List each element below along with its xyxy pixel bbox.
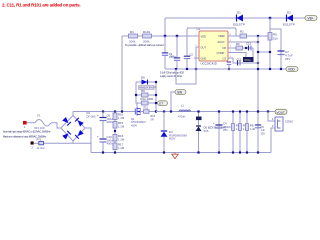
svg-text:VB+: VB+	[308, 17, 314, 21]
wire FB line	[233, 47, 253, 49]
diode D2	[283, 11, 295, 27]
node junction x258/52	[257, 51, 259, 53]
svg-text:0.1uF C9 to hold up VDD: 0.1uF C9 to hold up VDD	[160, 72, 184, 75]
wire fuse to bridge	[51, 123, 61, 128]
node junction rail/C5	[257, 110, 259, 112]
node junction startup tap	[121, 110, 123, 112]
wire HV rail left	[73, 111, 132, 113]
resistor R5	[268, 33, 278, 41]
svg-text:+: +	[97, 135, 99, 139]
pin stub GND 5	[194, 57, 199, 59]
node junction rail/CON	[267, 110, 269, 112]
svg-text:VREF: VREF	[218, 34, 225, 38]
svg-text:R101: R101	[143, 30, 151, 34]
node junction R9 right	[155, 94, 157, 96]
svg-text:GND: GND	[201, 57, 207, 61]
svg-text:VOUT: VOUT	[277, 110, 286, 114]
resistor R6	[232, 112, 242, 153]
svg-text:R11: R11	[144, 107, 149, 110]
node junction bus/x258	[257, 68, 259, 70]
capacitor C11	[237, 59, 242, 66]
wire AC line 1	[27, 122, 35, 124]
svg-text:2: 2	[272, 124, 274, 128]
node junction rail/D5	[197, 110, 199, 112]
capacitor C13 above bus	[227, 62, 231, 69]
svg-text:To provide +100uA start-up cur: To provide +100uA start-up current	[125, 43, 164, 47]
svg-text:0R: 0R	[151, 118, 154, 121]
wire top-rail left drop	[164, 18, 166, 36]
bridge diode top-right	[75, 118, 84, 127]
pin stub AOUT 1	[228, 41, 233, 43]
svg-text:470p: 470p	[244, 58, 251, 62]
svg-text:SW: SW	[177, 91, 182, 95]
resistor R13 label	[151, 115, 156, 121]
wire snubber right rail	[155, 82, 157, 112]
wire branch to C7	[270, 29, 281, 69]
fuse F1	[35, 113, 52, 130]
node junction bus/x270	[269, 68, 271, 70]
node junction gnd/R7	[239, 151, 241, 153]
svg-text:Maximum allowance input 485VAC: Maximum allowance input 485VAC, 50/60Hz	[3, 136, 47, 139]
svg-text:F1: F1	[38, 113, 42, 117]
node junction switch node	[155, 110, 157, 112]
connector CON2	[268, 112, 293, 153]
svg-text:RT1: RT1	[37, 138, 42, 141]
svg-text:400V: 400V	[107, 120, 114, 124]
resistor R11	[144, 107, 150, 114]
node junction bus/u-right	[195, 68, 197, 70]
pin stub CS 4	[228, 57, 233, 59]
thermistor RT1	[37, 138, 45, 150]
node junction startup/toprail	[164, 35, 166, 37]
wire bridge top to HV rail	[72, 112, 74, 116]
diode D1	[233, 11, 245, 27]
svg-text:+: +	[213, 121, 215, 125]
node junction rail/C4	[218, 110, 220, 112]
wire AOUT line	[233, 41, 258, 43]
op-amp U1 controller IC	[197, 27, 229, 66]
svg-text:1.2M: 1.2M	[118, 124, 125, 128]
svg-text:CS: CS	[223, 57, 227, 61]
diode D6	[136, 76, 157, 90]
svg-text:470uH: 470uH	[178, 115, 186, 118]
wire bridge minus drop	[85, 128, 91, 153]
node junction gnd/D3	[163, 151, 165, 153]
zener D5	[196, 112, 227, 153]
wire x253 drop	[252, 48, 254, 57]
node junction rail/R7	[239, 110, 241, 112]
wire switch node rail	[156, 111, 179, 113]
svg-text:D1: D1	[237, 11, 241, 15]
bridge diode bottom-right	[75, 130, 84, 139]
svg-text:ES1J/TP: ES1J/TP	[283, 23, 295, 27]
wire Q1 drain up	[136, 82, 137, 108]
svg-text:DF-06S: DF-06S	[87, 114, 96, 118]
node junction rail/R6	[232, 110, 234, 112]
pin stub VDD 7	[194, 35, 199, 37]
pin stub COMP 3	[228, 52, 233, 54]
svg-text:AOUT: AOUT	[218, 40, 226, 44]
svg-text:R9: R9	[141, 89, 145, 93]
svg-text:1: 1	[24, 126, 26, 129]
bridge D4 outline	[61, 111, 96, 141]
node junction gnd/x258	[257, 151, 259, 153]
svg-text:25V: 25V	[285, 57, 290, 61]
resistor R17	[113, 143, 125, 150]
resistor R12	[136, 97, 156, 105]
terminal 1	[23, 121, 27, 129]
node junction D3 top	[163, 110, 165, 112]
terminal 2	[31, 141, 34, 149]
resistor R9	[136, 89, 156, 97]
svg-text:C2: C2	[190, 53, 194, 57]
node junction R10 top	[114, 110, 116, 112]
svg-text:C12: C12	[246, 42, 252, 46]
resistor R101	[143, 30, 152, 44]
capacitor C2	[184, 29, 194, 69]
wire VREF line	[233, 35, 270, 37]
svg-text:600V: 600V	[169, 137, 176, 141]
node junction R12 right	[155, 102, 157, 104]
svg-text:1: 1	[272, 117, 274, 121]
resistor R1	[129, 30, 138, 44]
bridge diode top-left	[62, 117, 71, 126]
wire comp-to-hv link	[258, 51, 270, 53]
svg-text:L1: L1	[181, 105, 184, 108]
pin stub OUT 6	[187, 28, 236, 47]
svg-text:+: +	[97, 113, 99, 117]
svg-text:D6: D6	[141, 76, 145, 80]
svg-text:2. C11, R1 and R101 are added: 2. C11, R1 and R101 are added on parts.	[2, 3, 80, 8]
resistor R3	[236, 42, 243, 50]
svg-text:450V: 450V	[131, 123, 137, 127]
pin stub FB 2	[228, 47, 233, 49]
pin numbers	[196, 34, 232, 58]
bridge diode bottom-left	[62, 131, 71, 140]
svg-text:Nominal input range 85VAC to 3: Nominal input range 85VAC to 310VAC, 50/…	[3, 130, 51, 133]
node junction gnd/C4	[218, 151, 220, 153]
wire top rail	[165, 17, 305, 19]
node junction SW tag	[170, 110, 172, 112]
svg-text:R1: R1	[130, 30, 134, 34]
svg-text:supply current for 10ms: supply current for 10ms	[160, 75, 183, 78]
svg-text:1.2M: 1.2M	[118, 137, 125, 141]
resistor R8	[246, 112, 256, 153]
node junction CS/x258	[257, 62, 259, 64]
node junction gnd/R8	[246, 151, 248, 153]
capacitor C7	[278, 50, 293, 61]
resistor R2	[240, 30, 247, 39]
node junction top rail	[269, 17, 271, 19]
svg-text:CON2: CON2	[285, 120, 293, 124]
svg-text:R12 100R: R12 100R	[141, 97, 154, 101]
wire U-loop	[176, 47, 196, 84]
svg-text:400V: 400V	[107, 142, 114, 146]
node junction startup/C1	[176, 35, 178, 37]
capacitor C9	[162, 36, 177, 69]
svg-text:UCC28C42D: UCC28C42D	[201, 62, 217, 66]
node junction C6 top	[102, 110, 104, 112]
svg-text:200k: 200k	[143, 40, 150, 44]
svg-text:FB: FB	[223, 46, 227, 50]
wire AC line 2	[34, 142, 91, 144]
node junction bus/x281	[280, 68, 282, 70]
svg-text:R2: R2	[240, 30, 244, 34]
resistor R7	[239, 112, 249, 153]
svg-text:VDD: VDD	[288, 68, 295, 72]
svg-text:C11: C11	[237, 59, 242, 62]
ground	[172, 153, 178, 159]
node junction snubber right	[155, 81, 157, 83]
svg-text:COMP: COMP	[217, 51, 225, 55]
net label VB+	[305, 16, 317, 21]
capacitor C12	[246, 42, 252, 51]
wire bridge bottom to AC2	[72, 141, 74, 143]
svg-text:1.2M: 1.2M	[118, 116, 125, 120]
capacitor C4	[213, 112, 231, 153]
resistor R16	[113, 134, 125, 141]
wire start-up left drop to HV rail	[121, 36, 123, 112]
net label SW	[175, 90, 186, 95]
wire COMP line	[233, 53, 246, 58]
capacitor C6	[97, 112, 115, 139]
node junction AOUT	[257, 41, 259, 43]
svg-text:5V6: 5V6	[204, 129, 209, 133]
svg-text:R3: R3	[236, 42, 240, 46]
wire VDD bus	[165, 68, 286, 70]
node junction rail/R8	[246, 110, 248, 112]
node junction VREF/x258	[257, 35, 259, 37]
svg-text:200k: 200k	[129, 40, 136, 44]
wire bottom rail	[91, 152, 271, 154]
svg-text:C1: C1	[171, 54, 175, 58]
svg-text:ES1J/TP: ES1J/TP	[233, 23, 245, 27]
capacitor C10	[97, 135, 115, 153]
svg-text:1.2M: 1.2M	[118, 146, 125, 150]
inductor L1	[178, 105, 191, 119]
svg-text:51k: 51k	[273, 37, 278, 41]
node junction FB	[245, 47, 247, 49]
wire SW tag stub	[171, 92, 175, 112]
svg-text:10 ohm: 10 ohm	[37, 147, 45, 150]
wire Q1 out to switch node	[141, 111, 157, 113]
node junction bus/u-left	[175, 68, 177, 70]
svg-text:25V: 25V	[223, 128, 228, 132]
svg-text:RF1 10D: RF1 10D	[35, 127, 45, 130]
net label GATE	[158, 101, 168, 106]
node junction gnd/R6	[232, 151, 234, 153]
svg-text:D2: D2	[287, 11, 291, 15]
node junction bus/c2	[186, 68, 188, 70]
node junction gnd/R17	[114, 151, 116, 153]
resistor R15	[113, 121, 125, 128]
wire start-up line	[122, 35, 199, 37]
net label VDD bus end	[286, 67, 298, 72]
wire x270 vertical	[269, 18, 271, 69]
node junction R chain	[114, 130, 116, 132]
svg-text:GT: GT	[159, 102, 163, 106]
svg-text:VDD: VDD	[201, 35, 207, 39]
capacitor C1	[171, 36, 181, 69]
dark value box	[243, 57, 254, 62]
pin stub VREF 8	[228, 35, 233, 37]
wire output rail	[191, 111, 275, 113]
node junction gnd/D5	[197, 151, 199, 153]
wire CS line	[233, 58, 258, 63]
node junction bus/C13	[228, 68, 230, 70]
node junction x270/52	[269, 51, 271, 53]
resistor R10	[113, 112, 125, 153]
wire x258 long vertical	[257, 36, 259, 153]
node junction gnd/C10	[102, 151, 104, 153]
svg-text:2: 2	[32, 146, 34, 149]
diode D3 freewheel	[161, 112, 188, 153]
svg-text:OUT: OUT	[201, 46, 207, 50]
svg-text:25V: 25V	[261, 131, 266, 135]
transistor Q1	[131, 108, 146, 128]
capacitor C5	[255, 125, 266, 135]
node junction R9 left	[135, 94, 137, 96]
net label VOUT rail	[275, 109, 287, 114]
